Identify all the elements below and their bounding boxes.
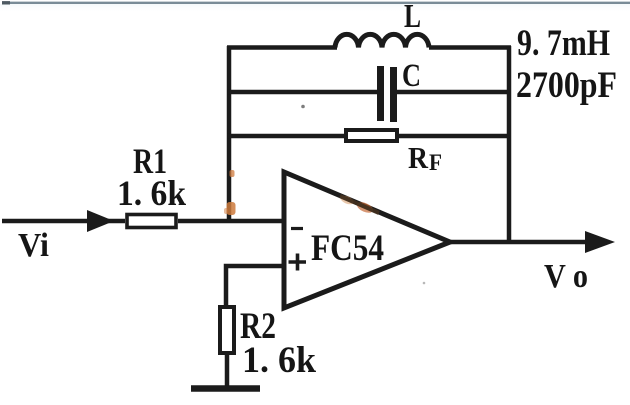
resistor RF [346,130,397,141]
resistor R1 [127,215,176,228]
svg-text:C: C [402,58,421,94]
svg-text:FC54: FC54 [311,227,384,268]
wire cap row right [396,90,511,95]
resistor R2 [220,307,234,353]
plus input pin [289,254,307,271]
wire R2 to ground [225,355,230,389]
scan speck [301,105,305,109]
input arrow [87,210,114,232]
inductor L [335,34,429,47]
svg-text:Vi: Vi [18,227,49,264]
wire input Vi to R1 [2,219,125,224]
op-amp U1 [284,172,450,308]
right feedback rail to output node [507,46,512,243]
wire RF row right [399,134,511,139]
wire RF row left [227,134,345,139]
svg-text:V o: V o [544,258,588,295]
output arrow [585,231,615,253]
wire top row left (to inductor) [227,45,337,50]
scan smudge on op-amp edge [339,194,379,215]
minus input pin [291,227,303,230]
wire output Vo [448,240,590,245]
wire plus input to R2 [226,266,284,307]
svg-text:1. 6k: 1. 6k [242,340,316,381]
scan smudge on rail [224,170,236,215]
svg-text:2700pF: 2700pF [516,65,617,106]
wire top row right [429,45,511,50]
wire cap row left [227,90,378,95]
scan speck [423,282,426,285]
node A vertical rail (left feedback rail) [227,46,232,221]
wire R1 to node A [178,219,286,224]
svg-text:R: R [408,140,429,175]
svg-text:9. 7mH: 9. 7mH [517,23,610,64]
capacitor C [381,66,394,122]
svg-text:1. 6k: 1. 6k [117,173,186,213]
svg-text:F: F [429,150,442,175]
svg-text:L: L [404,0,421,35]
ground [191,385,260,392]
